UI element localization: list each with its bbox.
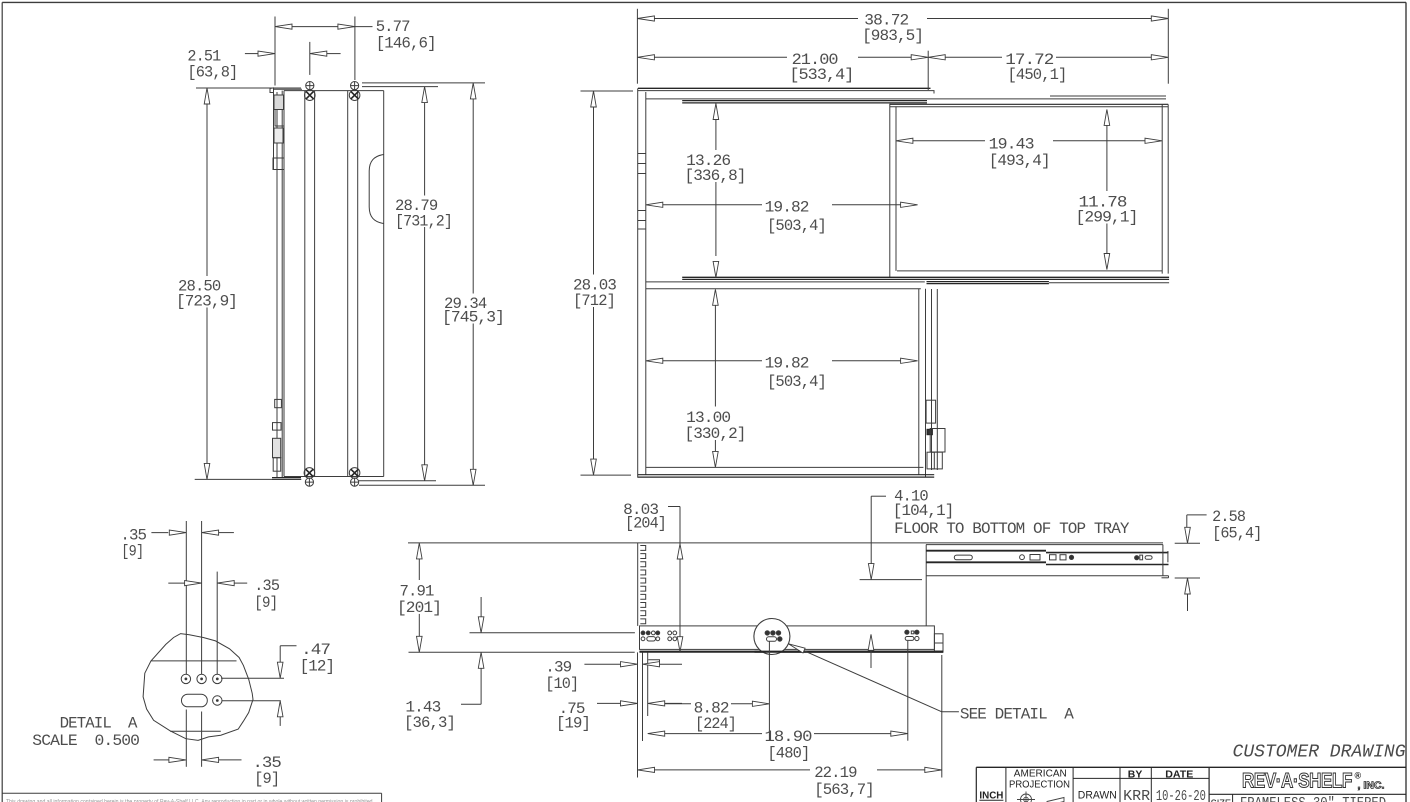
svg-text:[12]: [12] bbox=[300, 658, 335, 676]
sheet right border bbox=[1405, 2, 1407, 802]
svg-text:[224]: [224] bbox=[695, 715, 736, 733]
front view: bottom outer bbox=[638, 474, 935, 476]
svg-text:22.19: 22.19 bbox=[814, 764, 857, 782]
svg-text:CUSTOMER DRAWING: CUSTOMER DRAWING bbox=[1233, 742, 1406, 762]
dim 5.77 [146,6] bbox=[354, 17, 356, 81]
svg-text:, INC.: , INC. bbox=[1358, 781, 1385, 792]
svg-text:[19]: [19] bbox=[556, 715, 590, 733]
svg-text:18.90: 18.90 bbox=[765, 728, 812, 746]
svg-text:[563,7]: [563,7] bbox=[814, 781, 874, 799]
svg-text:BY: BY bbox=[1128, 768, 1143, 780]
side view: rail holes right group bbox=[905, 630, 909, 634]
dim 28.50 [723,9] bbox=[196, 87, 301, 89]
svg-text:[450,1]: [450,1] bbox=[1008, 66, 1067, 84]
svg-text:®: ® bbox=[1355, 771, 1362, 781]
svg-text:[731,2]: [731,2] bbox=[395, 212, 452, 230]
projection symbol bbox=[1017, 792, 1064, 802]
svg-text:19.82: 19.82 bbox=[765, 355, 809, 373]
dim 28.79 [731,2] bbox=[362, 86, 438, 88]
dim .39 [10] bbox=[642, 652, 644, 741]
svg-text:[503,4]: [503,4] bbox=[767, 217, 826, 235]
left view: handle cutout bbox=[369, 155, 384, 224]
front view: bottom floor bbox=[646, 466, 924, 468]
svg-text:SCALE 0.500: SCALE 0.500 bbox=[32, 732, 139, 750]
svg-text:SIZE: SIZE bbox=[1211, 799, 1232, 802]
rail bottom line over balloon bbox=[755, 651, 944, 653]
side view: rear rack zigzag edge bbox=[637, 543, 639, 626]
dim 13.26 [336,8] bbox=[713, 104, 719, 120]
side view: top tray side (pulled out) bbox=[926, 544, 1163, 546]
left view: shelf side panel bbox=[283, 91, 285, 477]
left view: screws bottom bar1 bbox=[304, 468, 315, 479]
front view: cabinet top rail bbox=[638, 87, 931, 89]
dim 8.82 [224] bbox=[768, 642, 770, 741]
floor level extension line bbox=[470, 632, 635, 634]
sheet top border bbox=[2, 1, 1406, 3]
side view: left foot bracket bbox=[648, 660, 659, 665]
svg-text:FRAMELESS 30" TIERED: FRAMELESS 30" TIERED bbox=[1240, 795, 1386, 802]
left view: screws top bar2 bbox=[351, 82, 359, 90]
svg-text:[104,1]: [104,1] bbox=[893, 502, 954, 520]
side view: bottom rail body bbox=[640, 626, 935, 650]
svg-text:[9]: [9] bbox=[254, 594, 277, 612]
svg-text:7.91: 7.91 bbox=[400, 582, 434, 600]
front view: top slide rail line bbox=[646, 98, 1166, 100]
svg-text:[146,6]: [146,6] bbox=[376, 35, 436, 53]
svg-text:[9]: [9] bbox=[254, 770, 279, 788]
svg-text:[204]: [204] bbox=[625, 514, 666, 532]
svg-text:[503,4]: [503,4] bbox=[767, 373, 826, 391]
dim 7.91 [201] bbox=[409, 651, 635, 653]
svg-text:[65,4]: [65,4] bbox=[1212, 525, 1261, 543]
left view: rail hardware bottom bbox=[275, 399, 282, 407]
dim 18.90 [480] bbox=[907, 641, 909, 741]
leader SEE DETAIL A bbox=[788, 644, 941, 712]
front view: upper tray box pulled right bbox=[889, 104, 891, 277]
dim 22.19 [563,7] bbox=[637, 652, 639, 777]
detail A: torn-edge boundary bbox=[143, 634, 253, 741]
svg-text:DATE: DATE bbox=[1165, 768, 1193, 780]
detail A: holes bbox=[181, 674, 190, 683]
dim 29.34 [745,3] bbox=[362, 82, 485, 84]
side view: detail balloon A bbox=[754, 619, 790, 655]
front view: left wall slide brackets upper bbox=[638, 153, 646, 155]
svg-text:REV·A·SHELF: REV·A·SHELF bbox=[1242, 770, 1353, 793]
dim .35 [9] second bbox=[168, 582, 184, 584]
svg-text:[533,4]: [533,4] bbox=[789, 66, 853, 84]
svg-text:19.82: 19.82 bbox=[765, 199, 809, 217]
dim 19.82 [503,4] upper bbox=[646, 202, 663, 207]
dim 13.00 [330,2] bbox=[713, 289, 719, 305]
bottom-left notes box bbox=[3, 792, 382, 794]
svg-text:PROJECTION: PROJECTION bbox=[1009, 780, 1070, 791]
dim .35 [9] bottom bbox=[154, 759, 169, 761]
side view: top edge / extension line bbox=[408, 542, 1163, 544]
svg-text:.35: .35 bbox=[254, 577, 279, 595]
svg-text:DETAIL A: DETAIL A bbox=[60, 714, 138, 732]
dim 11.78 [299,1] bbox=[1104, 109, 1110, 125]
front view: left wall bbox=[637, 88, 639, 477]
sheet left border bbox=[1, 2, 3, 802]
left view: cabinet slide rail bbox=[270, 88, 274, 93]
svg-text:This drawing and all informati: This drawing and all information contain… bbox=[6, 799, 374, 802]
front view: middle shelf band bbox=[682, 276, 1169, 278]
dim 38.72 [983,5] bbox=[636, 9, 638, 84]
side view: rail holes left group bbox=[641, 631, 645, 635]
left view: chrome bar 1 bbox=[304, 91, 306, 477]
svg-text:AMERICAN: AMERICAN bbox=[1014, 769, 1067, 780]
dim 19.43 [493,4] bbox=[896, 138, 913, 143]
svg-text:FLOOR TO BOTTOM OF TOP TRAY: FLOOR TO BOTTOM OF TOP TRAY bbox=[894, 520, 1130, 538]
title block frame bbox=[976, 766, 1406, 768]
svg-text:10-26-20: 10-26-20 bbox=[1156, 788, 1206, 802]
svg-text:[983,5]: [983,5] bbox=[862, 27, 923, 45]
dim 28.03 [712] bbox=[581, 90, 634, 92]
side view: rail right end hardware bbox=[934, 634, 943, 652]
svg-text:SEE DETAIL A: SEE DETAIL A bbox=[960, 706, 1074, 724]
dim 19.82 [503,4] lower bbox=[646, 358, 663, 363]
left view: screws top bar1 bbox=[306, 82, 314, 90]
svg-text:KRR: KRR bbox=[1123, 788, 1150, 802]
dim 2.51 [63,8] bbox=[274, 17, 276, 86]
detail A: hole center lines bbox=[185, 521, 187, 674]
svg-text:2.58: 2.58 bbox=[1212, 508, 1245, 526]
svg-text:[480]: [480] bbox=[767, 745, 809, 763]
left view: rail latch hardware top bbox=[274, 95, 284, 110]
svg-text:[336,8]: [336,8] bbox=[685, 167, 746, 185]
svg-text:[493,4]: [493,4] bbox=[989, 152, 1050, 170]
front view: slide under tray bbox=[927, 281, 1049, 283]
svg-text:.47: .47 bbox=[301, 641, 330, 659]
dim 21.00 [533,4] bbox=[927, 51, 929, 90]
front view: right wall hardware bbox=[926, 400, 936, 423]
dim 17.72 [450,1] bbox=[928, 55, 945, 60]
svg-text:DRAWN: DRAWN bbox=[1078, 790, 1117, 802]
detail A: rail edge chords bbox=[151, 660, 237, 662]
svg-text:5.77: 5.77 bbox=[376, 18, 410, 36]
svg-text:[9]: [9] bbox=[121, 543, 143, 561]
left view: chrome bar 2 bbox=[347, 91, 349, 477]
svg-text:19.43: 19.43 bbox=[989, 135, 1034, 153]
svg-text:[63,8]: [63,8] bbox=[187, 63, 237, 81]
dim 1.43 [36,3] bbox=[478, 617, 484, 633]
front view: top tray floor bbox=[682, 100, 927, 102]
svg-text:[10]: [10] bbox=[545, 675, 578, 693]
front view: lower unit right wall bbox=[918, 289, 920, 475]
svg-text:.39: .39 bbox=[545, 658, 571, 676]
dim .47 [12] bbox=[221, 677, 284, 679]
svg-text:[36,3]: [36,3] bbox=[404, 714, 455, 732]
left view: screws bottom bar2 bbox=[349, 468, 360, 479]
